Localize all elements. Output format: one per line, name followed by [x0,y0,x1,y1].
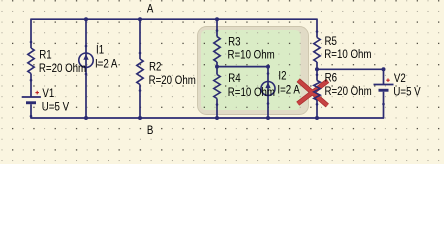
svg-text:I=2 A: I=2 A [277,83,300,96]
svg-text:R1: R1 [39,49,51,62]
svg-text:U=5 V: U=5 V [393,85,421,98]
svg-text:R4: R4 [228,72,240,85]
svg-text:R5: R5 [325,35,337,48]
svg-text:I=2 A: I=2 A [95,57,118,70]
svg-text:U=5 V: U=5 V [42,101,70,114]
svg-text:I2: I2 [278,70,286,83]
svg-text:R=20 Ohm: R=20 Ohm [325,85,372,98]
svg-text:R=20 Ohm: R=20 Ohm [39,62,86,75]
svg-text:R=10 Ohm: R=10 Ohm [324,48,371,61]
svg-text:R3: R3 [228,35,240,48]
svg-text:R=10 Ohm: R=10 Ohm [228,49,275,62]
svg-text:A: A [147,3,154,16]
svg-text:R2: R2 [149,61,161,74]
svg-text:R6: R6 [325,72,337,85]
svg-text:V1: V1 [42,87,54,100]
svg-text:R=10 Ohm: R=10 Ohm [228,86,275,99]
svg-text:I1: I1 [96,44,104,57]
svg-text:B: B [147,124,153,137]
svg-text:V2: V2 [394,72,406,85]
svg-text:R=20 Ohm: R=20 Ohm [149,74,196,87]
